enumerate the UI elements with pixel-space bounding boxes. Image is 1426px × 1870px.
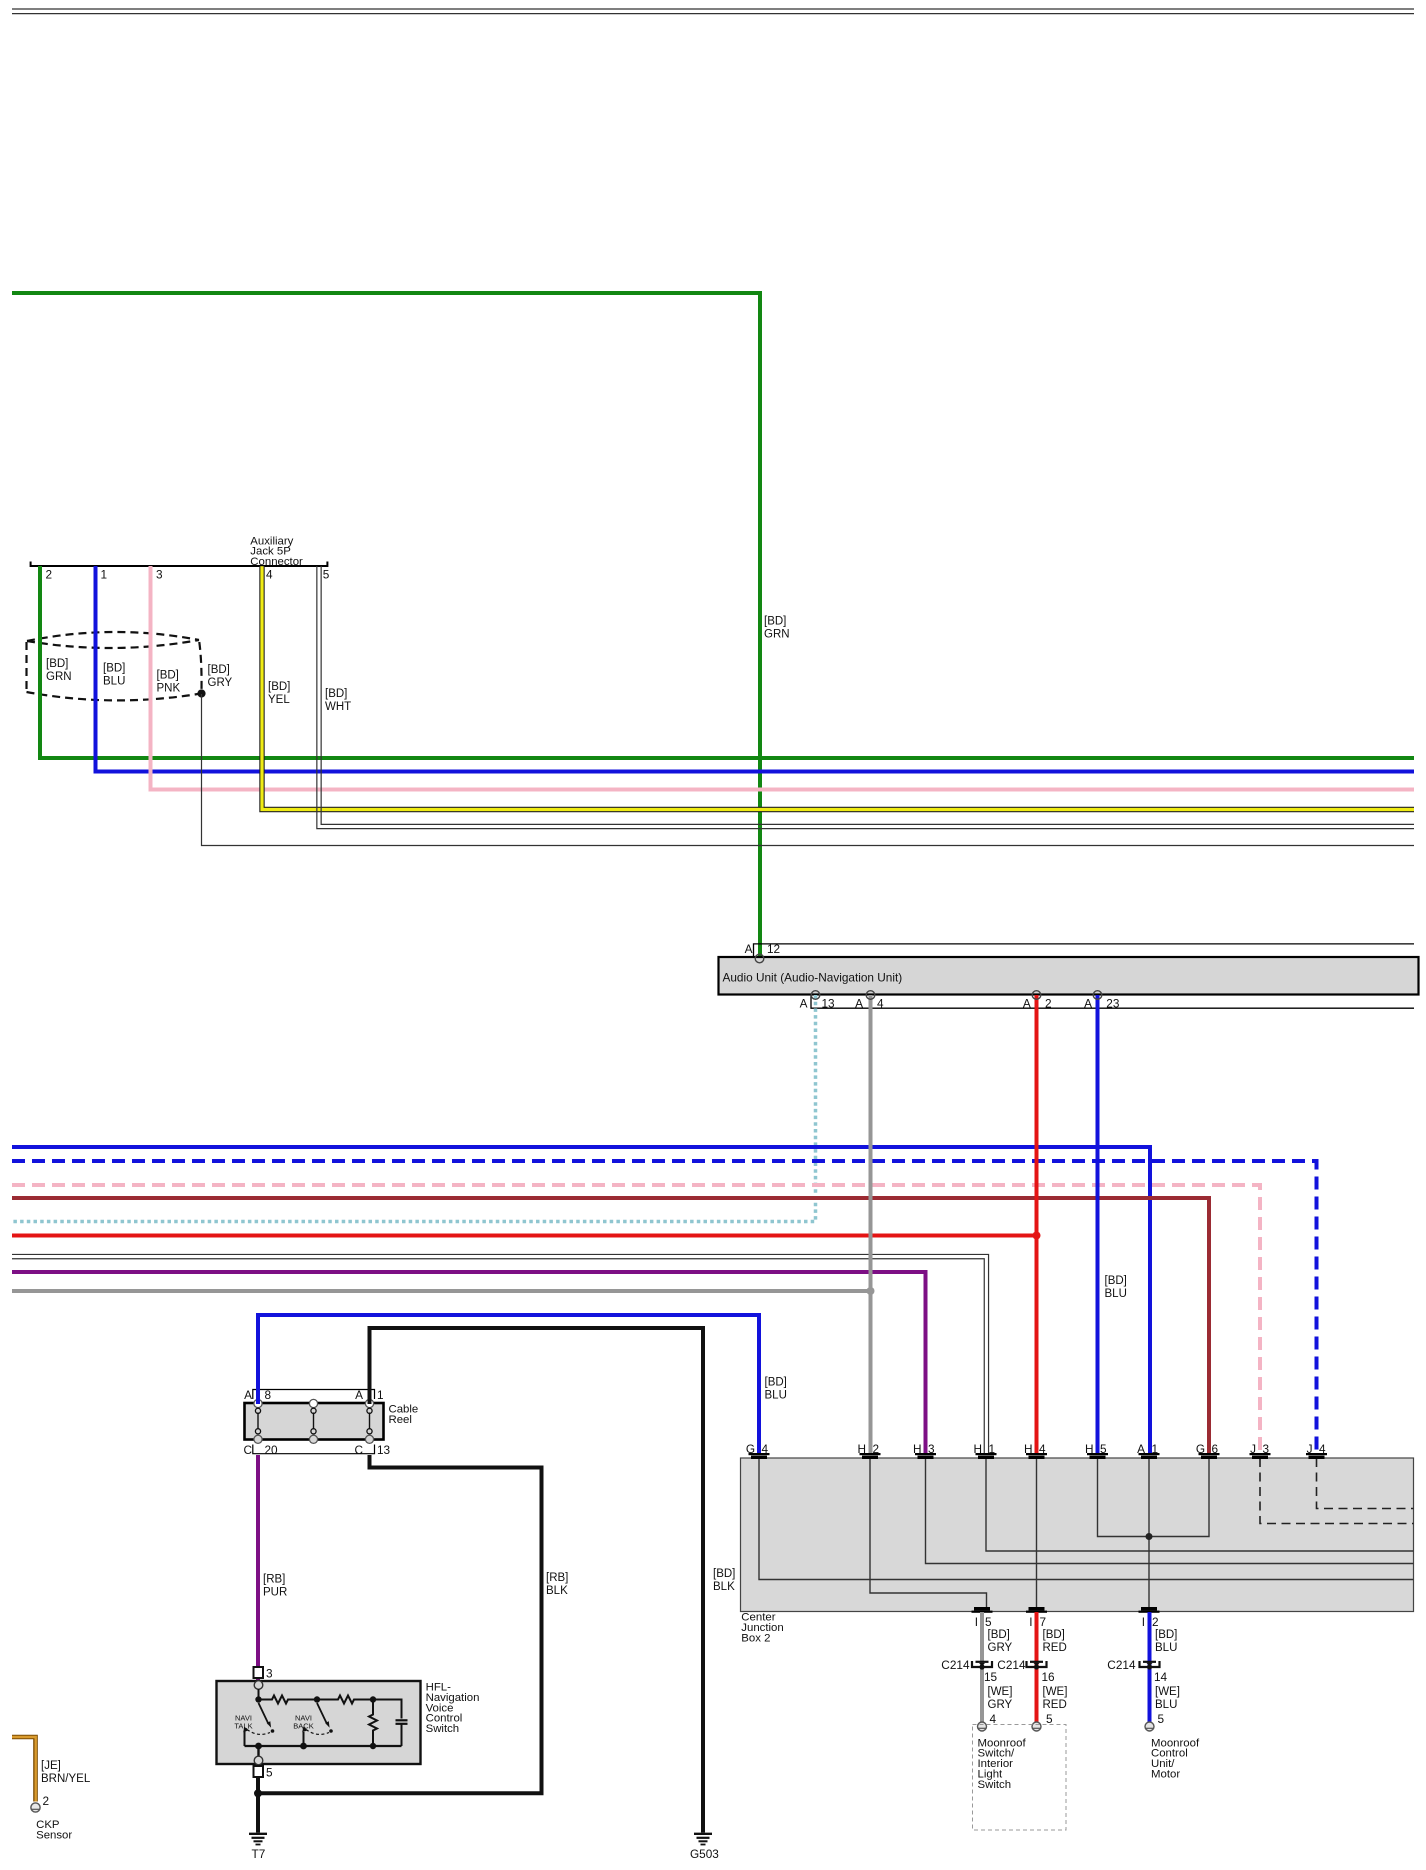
svg-text:[BD]: [BD] (765, 1376, 787, 1388)
svg-text:14: 14 (1154, 1670, 1168, 1684)
svg-text:BLU: BLU (1155, 1642, 1177, 1654)
svg-text:BRN/YEL: BRN/YEL (41, 1773, 91, 1785)
svg-text:4: 4 (266, 568, 273, 582)
svg-text:WHT: WHT (325, 701, 351, 713)
svg-text:[BD]: [BD] (1043, 1629, 1065, 1641)
svg-text:[BD]: [BD] (325, 688, 347, 700)
svg-text:6: 6 (1212, 1442, 1219, 1456)
svg-text:GRN: GRN (764, 629, 790, 641)
svg-text:[WE]: [WE] (988, 1686, 1013, 1698)
svg-text:20: 20 (265, 1443, 279, 1457)
svg-text:A: A (244, 1388, 252, 1402)
svg-text:1: 1 (101, 568, 108, 582)
svg-text:2: 2 (46, 568, 53, 582)
svg-text:C214: C214 (1107, 1658, 1136, 1672)
svg-text:4: 4 (877, 997, 884, 1011)
svg-text:[BD]: [BD] (1155, 1629, 1177, 1641)
svg-text:GRY: GRY (988, 1642, 1013, 1654)
svg-text:Sensor: Sensor (36, 1829, 72, 1841)
svg-text:1: 1 (989, 1442, 996, 1456)
svg-text:2: 2 (1045, 997, 1052, 1011)
svg-text:Reel: Reel (389, 1414, 412, 1426)
svg-text:J: J (1307, 1442, 1313, 1456)
svg-text:2: 2 (43, 1794, 50, 1808)
svg-text:[RB]: [RB] (546, 1572, 568, 1584)
svg-text:A: A (1023, 997, 1031, 1011)
svg-text:GRY: GRY (988, 1699, 1013, 1711)
svg-text:5: 5 (323, 568, 330, 582)
svg-text:5: 5 (1046, 1712, 1053, 1726)
svg-text:H: H (1024, 1442, 1033, 1456)
svg-text:BLU: BLU (1155, 1699, 1177, 1711)
svg-text:BLU: BLU (103, 676, 125, 688)
svg-text:BLK: BLK (713, 1581, 735, 1593)
svg-text:[BD]: [BD] (1105, 1275, 1127, 1287)
svg-text:23: 23 (1106, 997, 1120, 1011)
svg-text:T7: T7 (252, 1847, 266, 1861)
svg-text:PNK: PNK (157, 683, 181, 695)
svg-text:4: 4 (762, 1442, 769, 1456)
svg-text:H: H (857, 1442, 866, 1456)
svg-text:I: I (1142, 1615, 1145, 1629)
svg-text:A: A (1137, 1442, 1145, 1456)
svg-text:G: G (746, 1442, 755, 1456)
svg-text:2: 2 (1152, 1615, 1159, 1629)
svg-text:5: 5 (266, 1766, 273, 1780)
svg-text:13: 13 (377, 1443, 391, 1457)
svg-text:3: 3 (928, 1442, 935, 1456)
svg-text:C214: C214 (997, 1658, 1026, 1672)
svg-text:I: I (1029, 1615, 1032, 1629)
svg-text:GRY: GRY (208, 677, 233, 689)
svg-text:A: A (800, 997, 808, 1011)
svg-text:RED: RED (1043, 1699, 1067, 1711)
svg-text:4: 4 (1039, 1442, 1046, 1456)
svg-text:I: I (975, 1615, 978, 1629)
svg-text:4: 4 (1319, 1442, 1326, 1456)
svg-text:[JE]: [JE] (41, 1760, 61, 1772)
svg-text:3: 3 (1263, 1442, 1270, 1456)
svg-text:[BD]: [BD] (713, 1568, 735, 1580)
svg-text:YEL: YEL (268, 694, 290, 706)
svg-text:A: A (1084, 997, 1092, 1011)
svg-text:Switch: Switch (978, 1779, 1012, 1791)
svg-text:3: 3 (266, 1666, 273, 1680)
svg-text:[BD]: [BD] (988, 1629, 1010, 1641)
svg-text:H: H (913, 1442, 922, 1456)
svg-text:[BD]: [BD] (764, 616, 786, 628)
svg-text:BACK: BACK (293, 1722, 313, 1731)
svg-text:[RB]: [RB] (263, 1574, 285, 1586)
svg-text:5: 5 (985, 1615, 992, 1629)
svg-text:Connector: Connector (250, 556, 303, 568)
svg-text:3: 3 (156, 568, 163, 582)
svg-text:BLK: BLK (546, 1585, 568, 1597)
svg-text:4: 4 (990, 1712, 997, 1726)
svg-text:Box 2: Box 2 (741, 1633, 770, 1645)
svg-text:5: 5 (1158, 1712, 1165, 1726)
svg-text:15: 15 (984, 1670, 998, 1684)
svg-text:G: G (1196, 1442, 1205, 1456)
svg-text:16: 16 (1042, 1670, 1056, 1684)
svg-text:1: 1 (377, 1388, 384, 1402)
svg-text:[BD]: [BD] (157, 670, 179, 682)
svg-text:8: 8 (265, 1388, 272, 1402)
svg-text:13: 13 (822, 997, 836, 1011)
svg-text:1: 1 (1152, 1442, 1159, 1456)
svg-text:C: C (243, 1443, 252, 1457)
svg-text:[BD]: [BD] (268, 681, 290, 693)
svg-text:TALK: TALK (234, 1722, 252, 1731)
svg-text:BLU: BLU (1105, 1288, 1127, 1300)
svg-text:Switch: Switch (426, 1723, 460, 1735)
svg-text:J: J (1250, 1442, 1256, 1456)
svg-text:RED: RED (1043, 1642, 1067, 1654)
svg-text:PUR: PUR (263, 1587, 287, 1599)
svg-text:[BD]: [BD] (46, 658, 68, 670)
svg-text:A: A (855, 997, 863, 1011)
svg-text:BLU: BLU (765, 1389, 787, 1401)
svg-text:A: A (355, 1388, 363, 1402)
svg-text:H: H (973, 1442, 982, 1456)
svg-text:5: 5 (1100, 1442, 1107, 1456)
svg-text:H: H (1085, 1442, 1094, 1456)
svg-text:Motor: Motor (1151, 1769, 1180, 1781)
svg-text:7: 7 (1040, 1615, 1047, 1629)
svg-text:2: 2 (873, 1442, 880, 1456)
svg-text:A: A (745, 942, 753, 956)
svg-text:[BD]: [BD] (208, 664, 230, 676)
svg-text:C214: C214 (941, 1658, 970, 1672)
svg-text:Audio Unit (Audio-Navigation U: Audio Unit (Audio-Navigation Unit) (723, 971, 903, 985)
svg-text:[WE]: [WE] (1043, 1686, 1068, 1698)
svg-text:[WE]: [WE] (1155, 1686, 1180, 1698)
svg-text:12: 12 (767, 942, 780, 956)
svg-text:C: C (354, 1443, 363, 1457)
svg-text:[BD]: [BD] (103, 663, 125, 675)
svg-text:GRN: GRN (46, 671, 72, 683)
svg-text:G503: G503 (690, 1847, 719, 1861)
